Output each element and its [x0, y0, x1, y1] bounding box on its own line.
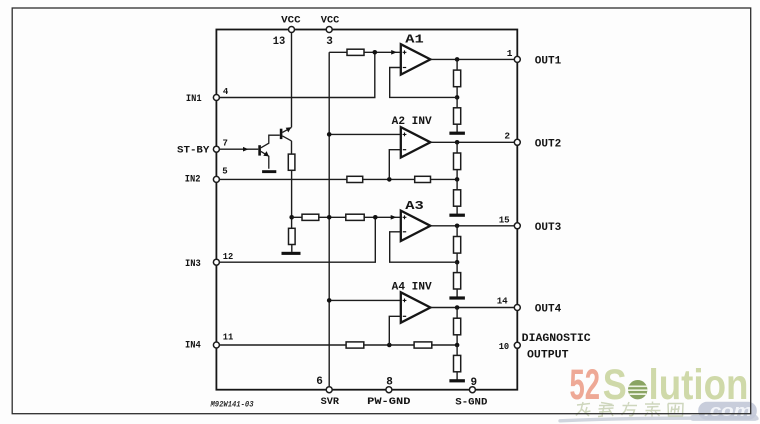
wire A4 inverting input to input junction: [389, 316, 401, 345]
wire SVR rail to A1 + input: [329, 51, 347, 53]
resistor R8 (bias to A3): [302, 214, 319, 220]
wire A2 inverting input to input junction: [389, 150, 401, 180]
pin OUT3: [499, 214, 562, 234]
resistor R17 (divider bottom): [454, 355, 461, 371]
pin 6 SVR: [316, 376, 339, 408]
transistor Q2 (PNP to VCC): [280, 127, 292, 141]
wire A2 output to R6: [456, 142, 458, 153]
wire IN4 row to A4 input network: [220, 344, 347, 346]
wire R14 to tap: [456, 335, 458, 345]
wire IN3 to A3 non-inverting node: [220, 217, 376, 262]
ground at A2 divider: [449, 214, 465, 217]
pin 9 S-GND: [455, 377, 487, 409]
wire A3 output to R10: [456, 226, 458, 237]
wire A4 + input from SVR rail: [329, 299, 401, 301]
wire R11 to ground: [456, 289, 458, 297]
wire Q2 collector to bias resistor: [291, 141, 293, 154]
pin 3 VCC: [321, 16, 340, 49]
IC package boundary box: [216, 30, 517, 390]
ground at A1 divider: [449, 132, 465, 135]
svg-text:4: 4: [223, 87, 229, 97]
svg-text:OUTPUT: OUTPUT: [527, 350, 569, 362]
resistor R12 (A4 input): [346, 342, 364, 348]
ground at Q1 emitter: [262, 170, 276, 173]
svg-text:A4 INV: A4 INV: [392, 281, 432, 293]
wire R12 to node A4-: [364, 344, 414, 346]
wire A2 output to pin: [430, 141, 514, 143]
wire A3 feedback tap to inverting input: [390, 232, 457, 262]
svg-text:IN4: IN4: [185, 341, 201, 352]
wire R2 to tap: [456, 87, 458, 98]
wire R6 to tap: [456, 170, 458, 180]
node SVR to A4 +: [327, 298, 332, 303]
wire ST-BY to transistor Q1 base: [220, 147, 259, 152]
ground at A3 divider: [449, 296, 465, 299]
node SVR to A2 +: [327, 132, 332, 137]
node A3 output to divider: [455, 224, 460, 229]
svg-text:6: 6: [316, 376, 323, 388]
wire R1 to A1 + input: [364, 50, 401, 55]
svg-text:15: 15: [499, 214, 510, 225]
op-amp A3: [401, 211, 431, 241]
pin OUT1: [507, 48, 562, 68]
ground at bias network: [282, 252, 301, 255]
resistor R16 (bias lower): [289, 228, 296, 244]
wire A1 output to R2: [456, 59, 458, 70]
svg-text:M92W141-03: M92W141-03: [210, 401, 254, 410]
wire R10 to tap: [456, 253, 458, 262]
node A3 + input junction: [373, 215, 378, 220]
resistor R4 (A2 input): [347, 176, 363, 182]
wire A1 output to pin: [430, 58, 514, 60]
resistor R14 (divider top): [454, 318, 461, 335]
svg-text:DIAGNOSTIC: DIAGNOSTIC: [522, 333, 591, 345]
node A3 feedback tap: [455, 260, 460, 265]
wire bias lower resistor to ground: [291, 245, 293, 252]
ground at A4 divider: [449, 379, 465, 382]
wire A2 + input from SVR rail: [329, 133, 401, 135]
svg-text:52: 52: [570, 361, 601, 409]
resistor R5 (A2 feedback): [415, 176, 431, 182]
wire R8 to SVR rail: [319, 216, 346, 218]
svg-text:OUT3: OUT3: [535, 222, 562, 234]
node A1 output to divider: [455, 57, 460, 62]
wire R3 to ground: [456, 124, 458, 132]
node A4 inverting input junction: [387, 343, 392, 348]
transistor Q1 (ST-BY NPN): [258, 135, 280, 169]
svg-text:5: 5: [222, 167, 227, 177]
resistor R13 (A4 feedback): [414, 342, 432, 348]
pin 7 ST-BY: [177, 139, 228, 157]
wire R9 to A3 + input: [364, 215, 401, 220]
svg-text:PW-GND: PW-GND: [367, 397, 410, 408]
svg-text:IN2: IN2: [185, 175, 201, 186]
wire SVR bias rail (node SVR): [328, 52, 330, 386]
svg-text:10: 10: [499, 341, 510, 352]
svg-text:14: 14: [497, 296, 508, 307]
wire A1 feedback tap to inverting input: [390, 68, 457, 98]
wire tap to R7: [456, 179, 458, 189]
node A4 output to divider: [455, 305, 460, 310]
wire tap to R3: [456, 97, 458, 107]
node A4 feedback tap: [455, 343, 460, 348]
svg-text:3: 3: [326, 36, 333, 48]
svg-text:11: 11: [223, 331, 234, 342]
resistor R6 (divider top): [454, 153, 461, 170]
resistor R10 (divider top): [454, 237, 461, 254]
pin 8 PW-GND: [367, 376, 410, 408]
node A2 feedback tap: [455, 177, 460, 182]
svg-text:A2 INV: A2 INV: [392, 116, 432, 128]
svg-text:7: 7: [223, 139, 228, 149]
wire IN1 to A1 non-inverting node: [220, 52, 375, 97]
svg-text:.com: .com: [704, 402, 752, 420]
wire tap to R17: [456, 345, 458, 355]
pin OUT4: [497, 296, 562, 316]
resistor R15 (bias upper): [288, 154, 295, 170]
svg-text:OUT2: OUT2: [535, 139, 562, 151]
wire bias tap to A3 + row: [292, 216, 302, 218]
op-amp A1: [401, 44, 431, 74]
wire R7 to ground: [456, 206, 458, 214]
resistor R3 (divider bottom): [454, 108, 461, 124]
node bias tap: [289, 215, 294, 220]
op-amp A2: [401, 127, 431, 157]
wire tap to R11: [456, 262, 458, 272]
pin 13 VCC: [273, 16, 301, 49]
svg-text:A3: A3: [405, 200, 424, 213]
svg-text:9: 9: [471, 377, 478, 389]
svg-text:ST-BY: ST-BY: [177, 146, 209, 157]
svg-text:OUT1: OUT1: [535, 56, 562, 68]
pin 11 IN4: [185, 331, 234, 351]
node A1 + input junction: [373, 50, 378, 55]
node SVR to A3 +: [327, 215, 332, 220]
resistor R11 (divider bottom): [454, 273, 461, 289]
svg-text:13: 13: [273, 36, 286, 48]
wire IN2 row to A2 input network: [220, 178, 347, 180]
wire R17 to ground: [456, 372, 458, 380]
svg-text:VCC: VCC: [281, 16, 301, 27]
pin 10 DIAGNOSTIC OUTPUT: [499, 333, 591, 362]
svg-text:IN1: IN1: [186, 94, 202, 105]
resistor R1 (A1 + bias): [347, 49, 364, 55]
svg-text:2: 2: [504, 130, 510, 141]
svg-text:S: S: [603, 361, 627, 409]
pin 12 IN3: [185, 251, 234, 270]
svg-text:VCC: VCC: [321, 16, 340, 27]
wire VCC pin13 rail to transistor Q2 emitter: [291, 33, 293, 128]
svg-text:A1: A1: [405, 34, 424, 47]
node A2 output to divider: [455, 140, 460, 145]
wire R13 to divider tap: [432, 344, 457, 346]
resistor R7 (divider bottom): [454, 190, 461, 206]
node A1 feedback tap: [455, 95, 460, 100]
wire R5 to divider tap: [431, 178, 458, 180]
wire R4 to node A2-: [363, 178, 415, 180]
wire A4 output to pin: [430, 307, 514, 309]
wire A3 output to pin: [430, 225, 514, 227]
resistor R2 (divider top): [454, 70, 461, 87]
pin 5 IN2: [185, 167, 228, 186]
watermark chinese characters: [576, 402, 683, 417]
svg-text:12: 12: [223, 251, 234, 262]
wire A4 output to R14: [456, 308, 458, 319]
wire bias resistor to A3 bias node: [291, 170, 293, 228]
svg-text:OUT4: OUT4: [535, 304, 562, 316]
watermark 52Solution logo: [560, 361, 758, 421]
svg-text:IN3: IN3: [185, 259, 201, 270]
op-amp A4: [401, 292, 431, 322]
resistor R9 (A3 + bias): [346, 214, 364, 220]
node A2 inverting input junction: [387, 177, 392, 182]
pin 4 IN1: [186, 87, 229, 105]
svg-text:1: 1: [507, 48, 513, 59]
watermark .com badge: [698, 402, 757, 420]
svg-text:SVR: SVR: [321, 397, 339, 408]
pin OUT2: [504, 130, 561, 150]
svg-text:8: 8: [386, 376, 393, 388]
svg-text:S-GND: S-GND: [455, 398, 487, 409]
